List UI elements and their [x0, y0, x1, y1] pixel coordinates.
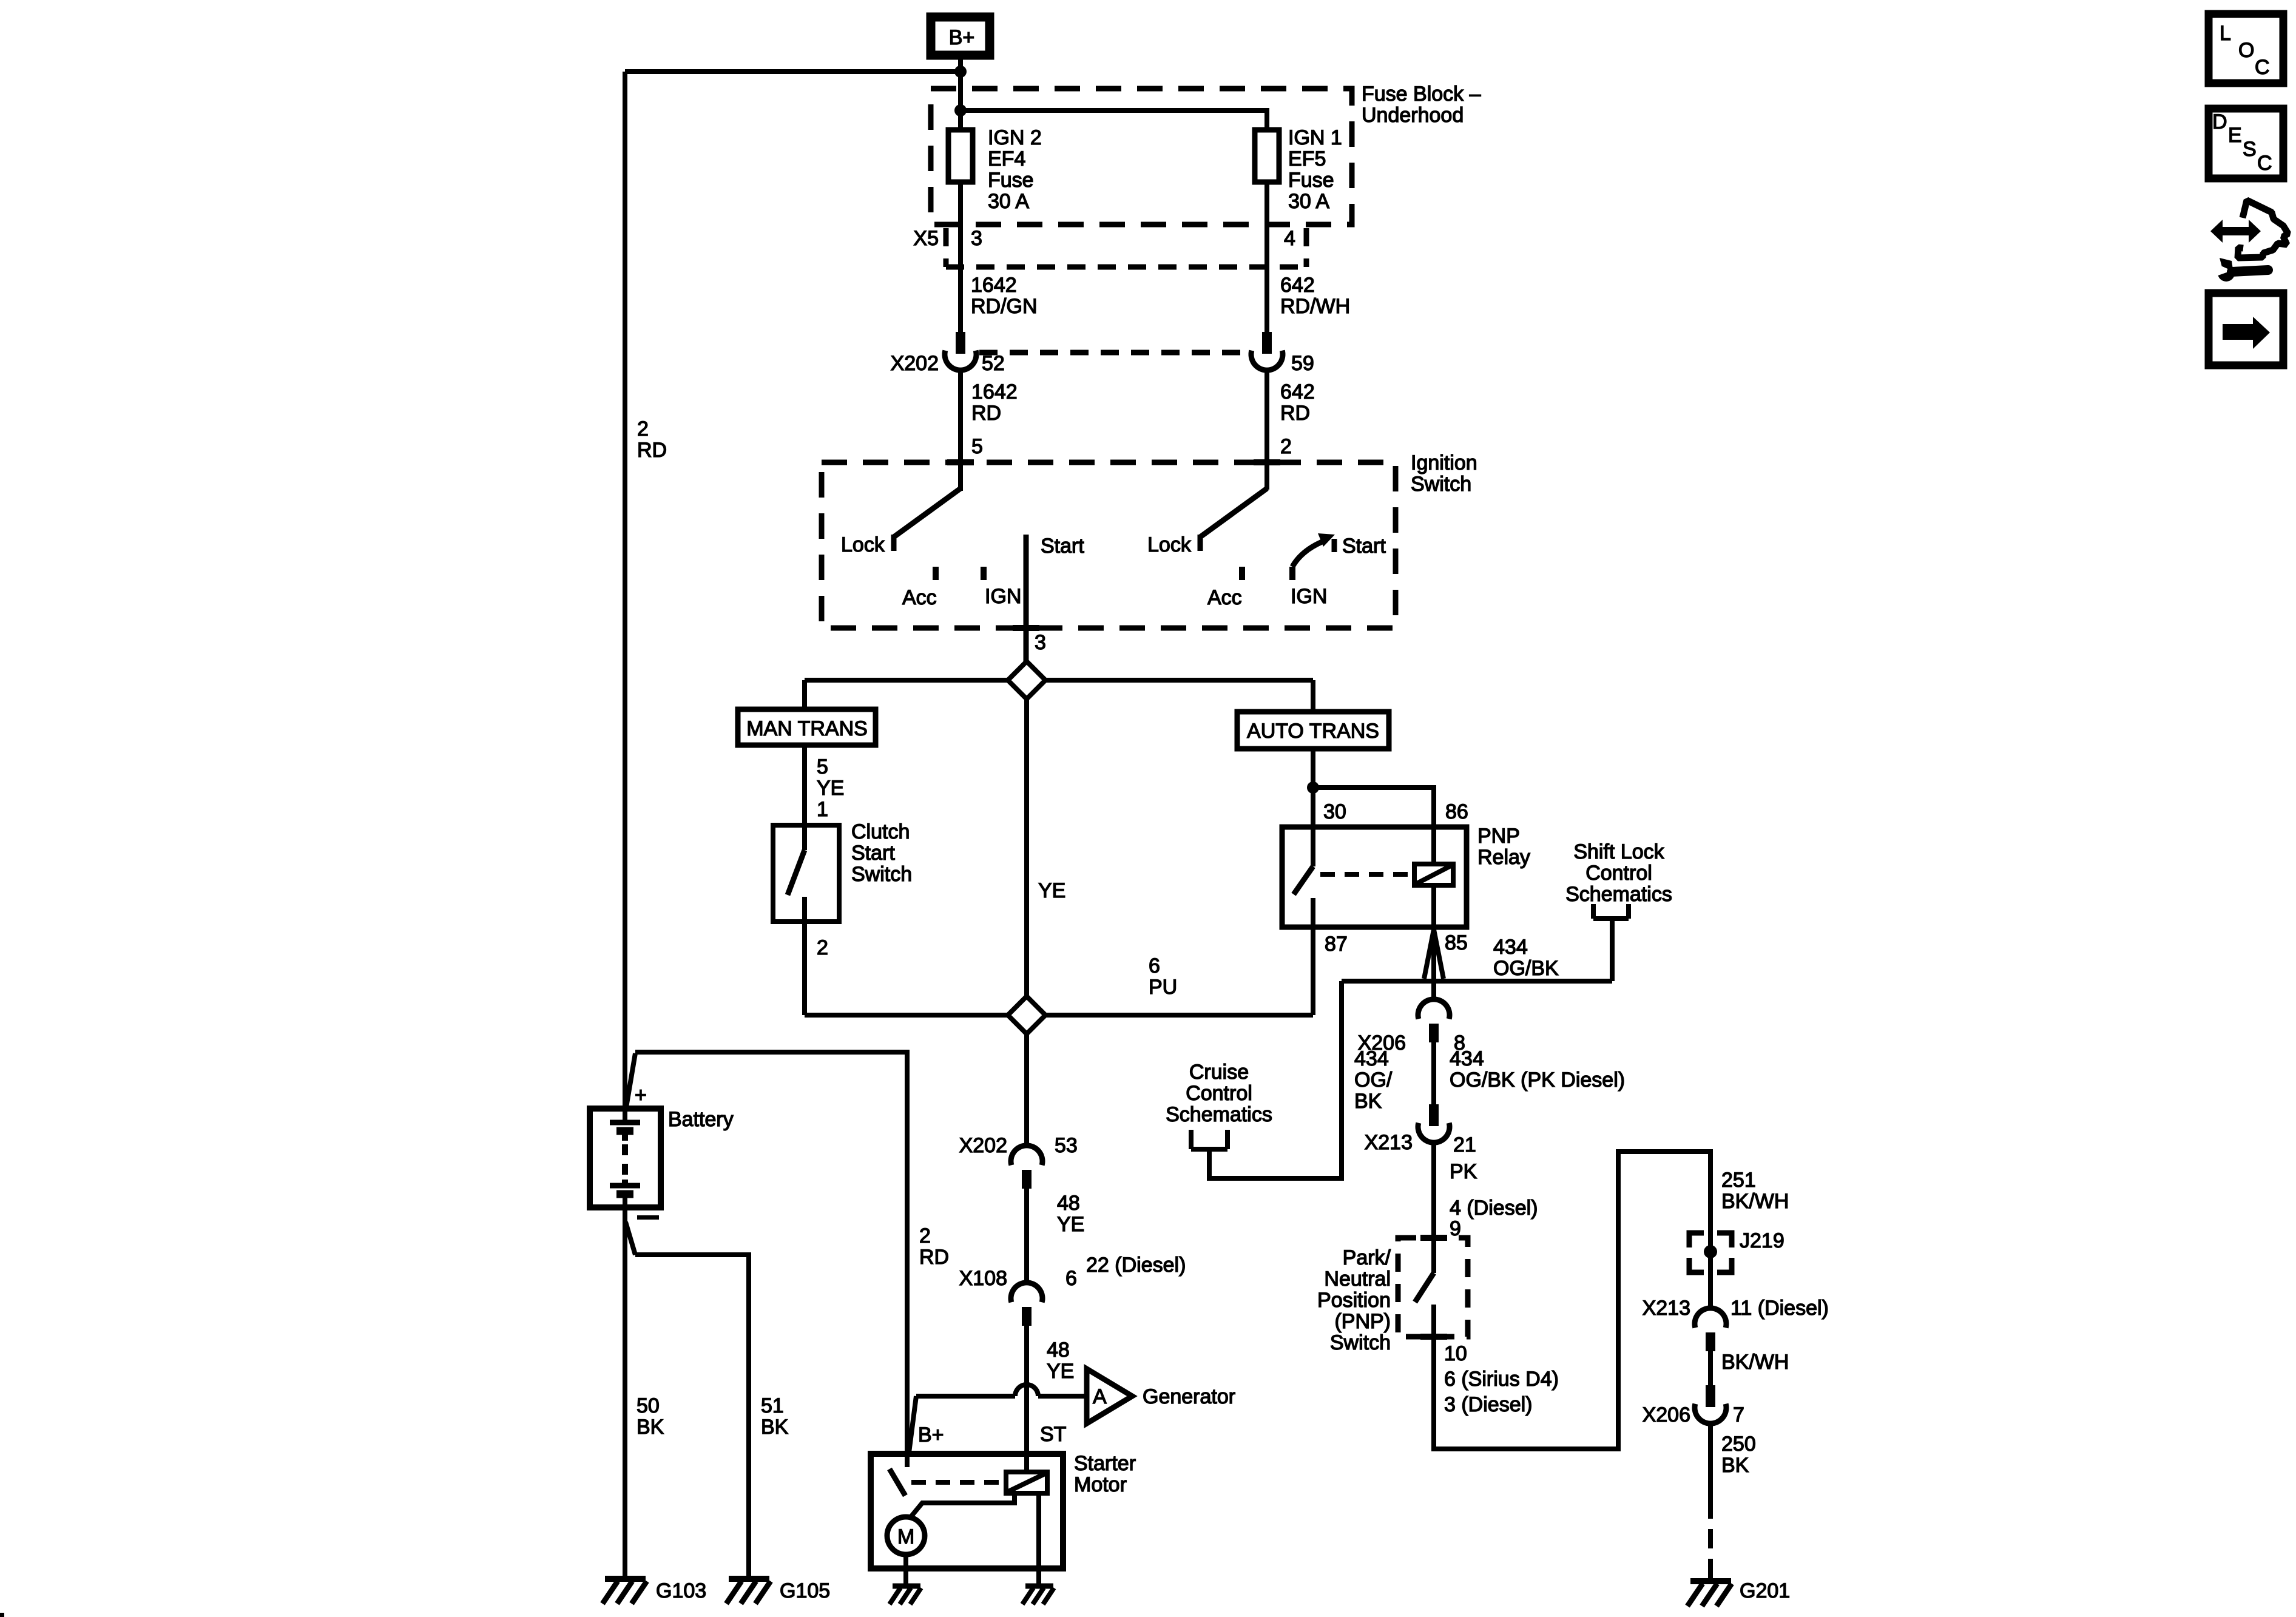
- svg-text:434: 434: [1450, 1047, 1484, 1070]
- label 250 BK: [1721, 1433, 1756, 1477]
- svg-text:Neutral: Neutral: [1324, 1268, 1391, 1291]
- svg-text:BK: BK: [636, 1416, 664, 1439]
- wire relay 87 down to return: [1311, 927, 1315, 1015]
- svg-text:IGN 2: IGN 2: [988, 126, 1042, 149]
- label 434 OG/BK (PK Diesel): [1450, 1047, 1625, 1092]
- svg-text:B+: B+: [918, 1423, 944, 1447]
- ground G201: [1687, 1581, 1732, 1606]
- svg-text:Cruise: Cruise: [1189, 1061, 1249, 1084]
- svg-text:YE: YE: [1047, 1360, 1074, 1383]
- svg-text:434: 434: [1493, 936, 1528, 959]
- svg-text:AUTO TRANS: AUTO TRANS: [1247, 720, 1379, 743]
- svg-text:48: 48: [1047, 1338, 1070, 1362]
- wire to generator with hump over ST wire: [909, 1385, 1087, 1453]
- label PNP Relay: [1477, 825, 1530, 869]
- svg-text:Park/: Park/: [1343, 1246, 1391, 1269]
- connector X202 pin 53 (female cap + male pin): [1011, 1146, 1042, 1189]
- wire to Shift Lock Control Schematics: [1610, 919, 1615, 981]
- label wire 1642 RD: [971, 380, 1018, 425]
- relay actuation dashed link: [1320, 872, 1411, 877]
- fuse IGN 1 EF5: [1255, 126, 1342, 213]
- label wire 642 RD/WH: [1280, 274, 1350, 318]
- wire relay pin 85: [1431, 885, 1436, 927]
- wire 1642 RD to ignition switch: [958, 370, 963, 491]
- svg-text:BK/WH: BK/WH: [1721, 1351, 1789, 1374]
- svg-text:51: 51: [761, 1394, 784, 1417]
- label Cruise Control Schematics: [1166, 1061, 1272, 1126]
- svg-text:48: 48: [1057, 1192, 1080, 1215]
- connector X202 dashed joint line: [979, 350, 1249, 356]
- label 2 RD starter feed: [919, 1224, 949, 1269]
- svg-text:7: 7: [1733, 1403, 1744, 1426]
- wire 5 YE to clutch start switch: [802, 745, 807, 825]
- label 434 OG/BK: [1493, 936, 1559, 980]
- fuse IGN 2 EF4: [948, 126, 1042, 213]
- svg-text:10: 10: [1444, 1342, 1467, 1365]
- wire to relay pin 86: [1313, 788, 1434, 864]
- svg-text:A: A: [1093, 1385, 1107, 1408]
- svg-text:PK: PK: [1450, 1160, 1477, 1183]
- svg-text:642: 642: [1280, 380, 1315, 403]
- PNP switch blade: [1415, 1273, 1434, 1337]
- wire PK to PNP switch: [1431, 1143, 1436, 1273]
- svg-text:Switch: Switch: [1330, 1331, 1391, 1354]
- left Start contact wire: [1024, 535, 1029, 661]
- PNP Relay box: [1282, 827, 1467, 927]
- svg-text:Switch: Switch: [851, 863, 912, 886]
- label 48 YE lower: [1047, 1338, 1074, 1383]
- svg-text:6: 6: [1149, 954, 1160, 977]
- LOC icon box: [2209, 14, 2283, 83]
- wire splice horizontal to AUTO TRANS: [1045, 678, 1313, 683]
- svg-text:3: 3: [971, 227, 982, 250]
- svg-text:X213: X213: [1365, 1131, 1413, 1154]
- svg-text:2: 2: [817, 936, 828, 959]
- wire AUTO TRANS to relay pin 30: [1311, 749, 1315, 866]
- exit tick pin 3: [1013, 625, 1039, 631]
- svg-text:RD: RD: [919, 1246, 949, 1269]
- svg-text:YE: YE: [1038, 879, 1065, 902]
- svg-text:PU: PU: [1149, 976, 1177, 999]
- svg-text:Starter: Starter: [1074, 1452, 1136, 1475]
- wire 85 center down to X206: [1431, 927, 1436, 999]
- wire clutch switch to bottom splice: [802, 922, 807, 1015]
- svg-text:85: 85: [1445, 931, 1468, 954]
- svg-text:4: 4: [1284, 227, 1295, 250]
- wire solenoid to ground: [1036, 1493, 1041, 1587]
- svg-text:Control: Control: [1585, 862, 1652, 885]
- svg-text:BK: BK: [1354, 1090, 1382, 1113]
- MAN TRANS box: [738, 709, 876, 745]
- connector X202 pin 59 (male pin + female cup): [1251, 332, 1283, 370]
- svg-text:Lock: Lock: [1147, 533, 1192, 556]
- svg-text:OG/BK (PK Diesel): OG/BK (PK Diesel): [1450, 1068, 1625, 1092]
- svg-text:3 (Diesel): 3 (Diesel): [1444, 1393, 1532, 1416]
- splice diamond bottom: [1008, 996, 1045, 1034]
- svg-text:RD/GN: RD/GN: [971, 295, 1038, 318]
- left IGN contact tick: [981, 567, 987, 580]
- wire fuse IGN2 down to connector X5-3: [958, 182, 963, 332]
- svg-text:C: C: [2255, 56, 2270, 79]
- entry tick pin 5: [947, 459, 974, 465]
- Starter Motor box: [871, 1454, 1063, 1568]
- ground G105: [726, 1579, 771, 1604]
- svg-text:642: 642: [1280, 274, 1315, 297]
- svg-text:11 (Diesel): 11 (Diesel): [1730, 1297, 1829, 1320]
- svg-text:Clutch: Clutch: [851, 820, 910, 843]
- svg-text:2: 2: [1280, 435, 1292, 458]
- svg-text:B+: B+: [949, 26, 975, 49]
- svg-text:J219: J219: [1740, 1229, 1784, 1252]
- wire 434 OG/BK (PK Diesel): [1431, 1042, 1436, 1104]
- svg-text:+: +: [635, 1084, 647, 1107]
- label wire 1642 RD/GN: [971, 274, 1038, 318]
- wire 434 OG/BK horizontal: [1342, 979, 1612, 984]
- svg-text:RD/WH: RD/WH: [1280, 295, 1350, 318]
- starter solenoid coil: [1006, 1472, 1047, 1493]
- svg-text:Lock: Lock: [841, 533, 885, 556]
- wire from B+ junction left to battery column: [625, 69, 961, 74]
- svg-text:RD: RD: [1280, 402, 1310, 425]
- wire motor to ground: [903, 1555, 908, 1587]
- AUTO TRANS box: [1237, 712, 1389, 749]
- svg-text:MAN TRANS: MAN TRANS: [746, 717, 868, 740]
- svg-text:6: 6: [1065, 1267, 1077, 1290]
- dashed wire to G201: [1708, 1499, 1713, 1580]
- svg-text:YE: YE: [817, 777, 844, 800]
- svg-text:L: L: [2220, 22, 2231, 45]
- svg-text:Relay: Relay: [1477, 846, 1530, 869]
- wire battery positive to starter B+: [635, 1052, 907, 1454]
- svg-text:Battery: Battery: [668, 1108, 734, 1131]
- svg-text:6 (Sirius D4): 6 (Sirius D4): [1444, 1368, 1559, 1391]
- svg-text:(PNP): (PNP): [1334, 1310, 1391, 1333]
- svg-text:250: 250: [1721, 1433, 1756, 1456]
- label Ignition Switch: [1411, 451, 1477, 496]
- starter solenoid dashed link: [911, 1480, 1002, 1485]
- Park/Neutral Position (PNP) Switch dashed box: [1398, 1238, 1468, 1337]
- wire B+ down to junction: [958, 59, 963, 130]
- svg-text:Acc: Acc: [902, 586, 937, 609]
- starter contact to motor wire: [911, 1493, 1015, 1517]
- exit tick PNP switch bottom: [1420, 1334, 1447, 1340]
- svg-text:5: 5: [971, 435, 983, 458]
- left Acc contact tick: [933, 567, 939, 580]
- label Starter Motor: [1074, 1452, 1136, 1496]
- svg-text:BK/WH: BK/WH: [1721, 1190, 1789, 1213]
- starter solenoid contact blade: [890, 1454, 907, 1496]
- svg-text:OG/BK: OG/BK: [1493, 957, 1559, 980]
- svg-text:1: 1: [817, 798, 828, 821]
- svg-text:BK: BK: [1721, 1454, 1749, 1477]
- svg-text:IGN 1: IGN 1: [1288, 126, 1342, 149]
- page corner mark: [0, 1613, 4, 1617]
- svg-text:52: 52: [982, 352, 1005, 375]
- svg-text:RD: RD: [637, 439, 667, 462]
- svg-text:X202: X202: [959, 1134, 1007, 1157]
- svg-text:Start: Start: [1342, 535, 1386, 558]
- svg-text:Schematics: Schematics: [1565, 883, 1672, 906]
- ground starter solenoid: [1022, 1586, 1054, 1604]
- battery negative jog to G105 branch: [626, 1222, 635, 1255]
- junction dot relay coil branch: [1307, 781, 1319, 794]
- battery: [590, 1109, 661, 1207]
- svg-text:50: 50: [636, 1394, 660, 1417]
- splice J219: [1689, 1233, 1732, 1272]
- battery positive jog to starter feed: [626, 1053, 635, 1111]
- connector X5 dashed outline: [946, 228, 1306, 267]
- wire 48 YE to starter ST: [1024, 1326, 1029, 1472]
- svg-text:2: 2: [637, 417, 649, 441]
- generator triangle A: [1087, 1369, 1132, 1423]
- DESC icon box: [2209, 109, 2283, 178]
- svg-text:YE: YE: [1057, 1213, 1084, 1236]
- right switch blade to Lock: [1200, 488, 1267, 551]
- wire PNP switch return loop: [1434, 1152, 1710, 1449]
- svg-text:21: 21: [1453, 1133, 1476, 1156]
- svg-text:Control: Control: [1186, 1082, 1252, 1105]
- wire MAN TRANS drop: [802, 680, 807, 709]
- svg-text:Shift Lock: Shift Lock: [1573, 840, 1664, 863]
- svg-text:BK: BK: [761, 1416, 789, 1439]
- connector X206 pin 8 (female cap + male pin): [1418, 999, 1450, 1042]
- label wire 642 RD: [1280, 380, 1315, 425]
- clutch start switch box: [773, 825, 839, 922]
- label Shift Lock Control Schematics: [1565, 840, 1672, 906]
- svg-text:Switch: Switch: [1411, 473, 1471, 496]
- starter motor M: [887, 1517, 925, 1555]
- label Park/Neutral Position (PNP) Switch: [1317, 1246, 1391, 1354]
- Ignition Switch dashed box: [822, 462, 1396, 628]
- Cruise Control destination bracket: [1191, 1130, 1227, 1149]
- connector X108 pin 6 (female cap + male pin): [1011, 1283, 1042, 1326]
- svg-text:53: 53: [1055, 1134, 1078, 1157]
- svg-text:Generator: Generator: [1143, 1385, 1235, 1408]
- svg-text:30: 30: [1323, 800, 1346, 823]
- svg-text:5: 5: [817, 755, 828, 778]
- svg-text:IGN: IGN: [1291, 585, 1327, 608]
- wire 642 RD to ignition switch: [1264, 370, 1269, 490]
- svg-text:1642: 1642: [971, 274, 1017, 297]
- svg-text:M: M: [897, 1525, 914, 1548]
- wire 50 BK battery negative to G103: [623, 1207, 627, 1580]
- wire BK/WH: [1708, 1351, 1713, 1385]
- svg-text:Underhood: Underhood: [1362, 104, 1464, 127]
- svg-text:22 (Diesel): 22 (Diesel): [1086, 1254, 1186, 1277]
- svg-text:S: S: [2243, 138, 2257, 161]
- svg-text:4 (Diesel): 4 (Diesel): [1450, 1197, 1538, 1220]
- wire 434 OG/BK to cruise control: [1209, 981, 1342, 1178]
- wire fuse IGN1 down to connector X5-4: [1264, 182, 1269, 332]
- label 251 BK/WH: [1721, 1169, 1789, 1213]
- svg-text:30 A: 30 A: [1288, 190, 1329, 213]
- hand with double arrow and wrench icon: [2210, 200, 2288, 282]
- svg-text:O: O: [2238, 39, 2254, 62]
- Shift Lock destination bracket: [1593, 904, 1629, 919]
- wire YE start to connector X202-53: [1024, 1034, 1029, 1146]
- svg-text:ST: ST: [1040, 1423, 1066, 1446]
- svg-text:Start: Start: [1041, 535, 1084, 558]
- svg-text:86: 86: [1445, 800, 1468, 823]
- label 48 YE: [1057, 1192, 1084, 1236]
- wire 2 RD left vertical from B+ to battery: [623, 72, 627, 1111]
- junction dot at B+ branch: [954, 66, 967, 78]
- right Start curved arrow: [1292, 533, 1335, 567]
- wire AUTO TRANS drop: [1311, 680, 1315, 712]
- svg-text:Fuse: Fuse: [1288, 169, 1334, 192]
- svg-text:2: 2: [919, 1224, 931, 1247]
- svg-text:Fuse Block –: Fuse Block –: [1362, 83, 1481, 106]
- label 434 OG/ BK left branch: [1354, 1047, 1393, 1113]
- svg-text:X206: X206: [1358, 1031, 1406, 1055]
- svg-text:X206: X206: [1643, 1403, 1690, 1426]
- label 51 BK: [761, 1394, 789, 1439]
- svg-text:Position: Position: [1317, 1289, 1391, 1312]
- junction dot fuse branch: [954, 104, 967, 116]
- label 2 RD on left vertical: [637, 417, 667, 462]
- svg-text:Start: Start: [851, 842, 895, 865]
- label Clutch Start Switch: [851, 820, 912, 886]
- forward arrow icon box: [2209, 293, 2283, 365]
- svg-text:X5: X5: [913, 227, 939, 250]
- labels 5 YE 1: [817, 755, 844, 821]
- relay switch blade: [1294, 866, 1313, 927]
- svg-text:RD: RD: [971, 402, 1001, 425]
- svg-text:X108: X108: [959, 1267, 1007, 1290]
- label - battery negative: [637, 1215, 659, 1220]
- svg-text:3: 3: [1035, 631, 1046, 654]
- svg-text:Acc: Acc: [1207, 586, 1242, 609]
- svg-text:59: 59: [1291, 352, 1314, 375]
- label 6 PU: [1149, 954, 1177, 999]
- wire bottom horizontal left: [805, 1013, 1008, 1018]
- label 50 BK: [636, 1394, 664, 1439]
- wire 250 BK: [1708, 1423, 1713, 1499]
- wire bottom horizontal right (relay 87 return): [1045, 1013, 1313, 1018]
- wire 51 BK to G105: [635, 1255, 749, 1580]
- B+ battery feed node: [931, 17, 990, 55]
- svg-text:E: E: [2228, 124, 2242, 147]
- svg-text:G103: G103: [656, 1579, 706, 1602]
- svg-text:C: C: [2257, 152, 2272, 175]
- svg-text:30 A: 30 A: [988, 190, 1029, 213]
- ground starter motor: [890, 1586, 921, 1604]
- svg-text:X213: X213: [1643, 1297, 1690, 1320]
- svg-text:D: D: [2212, 110, 2227, 133]
- svg-text:PNP: PNP: [1477, 825, 1520, 848]
- right IGN contact tick: [1289, 567, 1295, 580]
- wire 48 YE to X108: [1024, 1189, 1029, 1283]
- svg-text:Fuse: Fuse: [988, 169, 1034, 192]
- svg-text:Schematics: Schematics: [1166, 1103, 1272, 1126]
- Fuse Block - Underhood dashed box: [931, 89, 1352, 224]
- splice diamond top: [1008, 661, 1045, 699]
- connector X213 pin 11 (female cap + male pin): [1695, 1308, 1726, 1351]
- relay coil: [1414, 864, 1453, 885]
- connector X206 pin 7 (male pin + female cup): [1695, 1385, 1726, 1423]
- svg-text:EF4: EF4: [988, 147, 1025, 170]
- svg-text:Ignition: Ignition: [1411, 451, 1477, 474]
- entry tick PNP switch top: [1420, 1235, 1447, 1241]
- svg-text:87: 87: [1325, 933, 1348, 956]
- wire splice horizontal to MAN TRANS: [805, 678, 1008, 683]
- right Acc contact tick: [1239, 567, 1245, 580]
- svg-text:Motor: Motor: [1074, 1473, 1127, 1496]
- clutch start switch contacts: [788, 825, 805, 922]
- svg-text:G105: G105: [780, 1579, 830, 1602]
- svg-text:IGN: IGN: [985, 585, 1021, 608]
- splice V at relay pin 85: [1424, 930, 1443, 979]
- ground G103: [603, 1579, 647, 1604]
- svg-text:OG/: OG/: [1354, 1068, 1393, 1092]
- svg-text:EF5: EF5: [1288, 147, 1326, 170]
- entry tick pin 2: [1254, 459, 1280, 465]
- connector X202 pin 52 (male pin + female cup): [945, 332, 976, 370]
- svg-text:251: 251: [1721, 1169, 1756, 1192]
- label Fuse Block - Underhood: [1362, 83, 1481, 127]
- svg-text:G201: G201: [1740, 1579, 1790, 1602]
- connector X213 pin 21 (male pin + female cup): [1418, 1104, 1450, 1143]
- svg-text:X202: X202: [891, 352, 939, 375]
- wire start signal to splice: [1024, 699, 1029, 996]
- wire junction to IGN 1 fuse branch: [961, 110, 1267, 130]
- svg-text:1642: 1642: [971, 380, 1018, 403]
- left switch blade to Lock: [894, 488, 961, 551]
